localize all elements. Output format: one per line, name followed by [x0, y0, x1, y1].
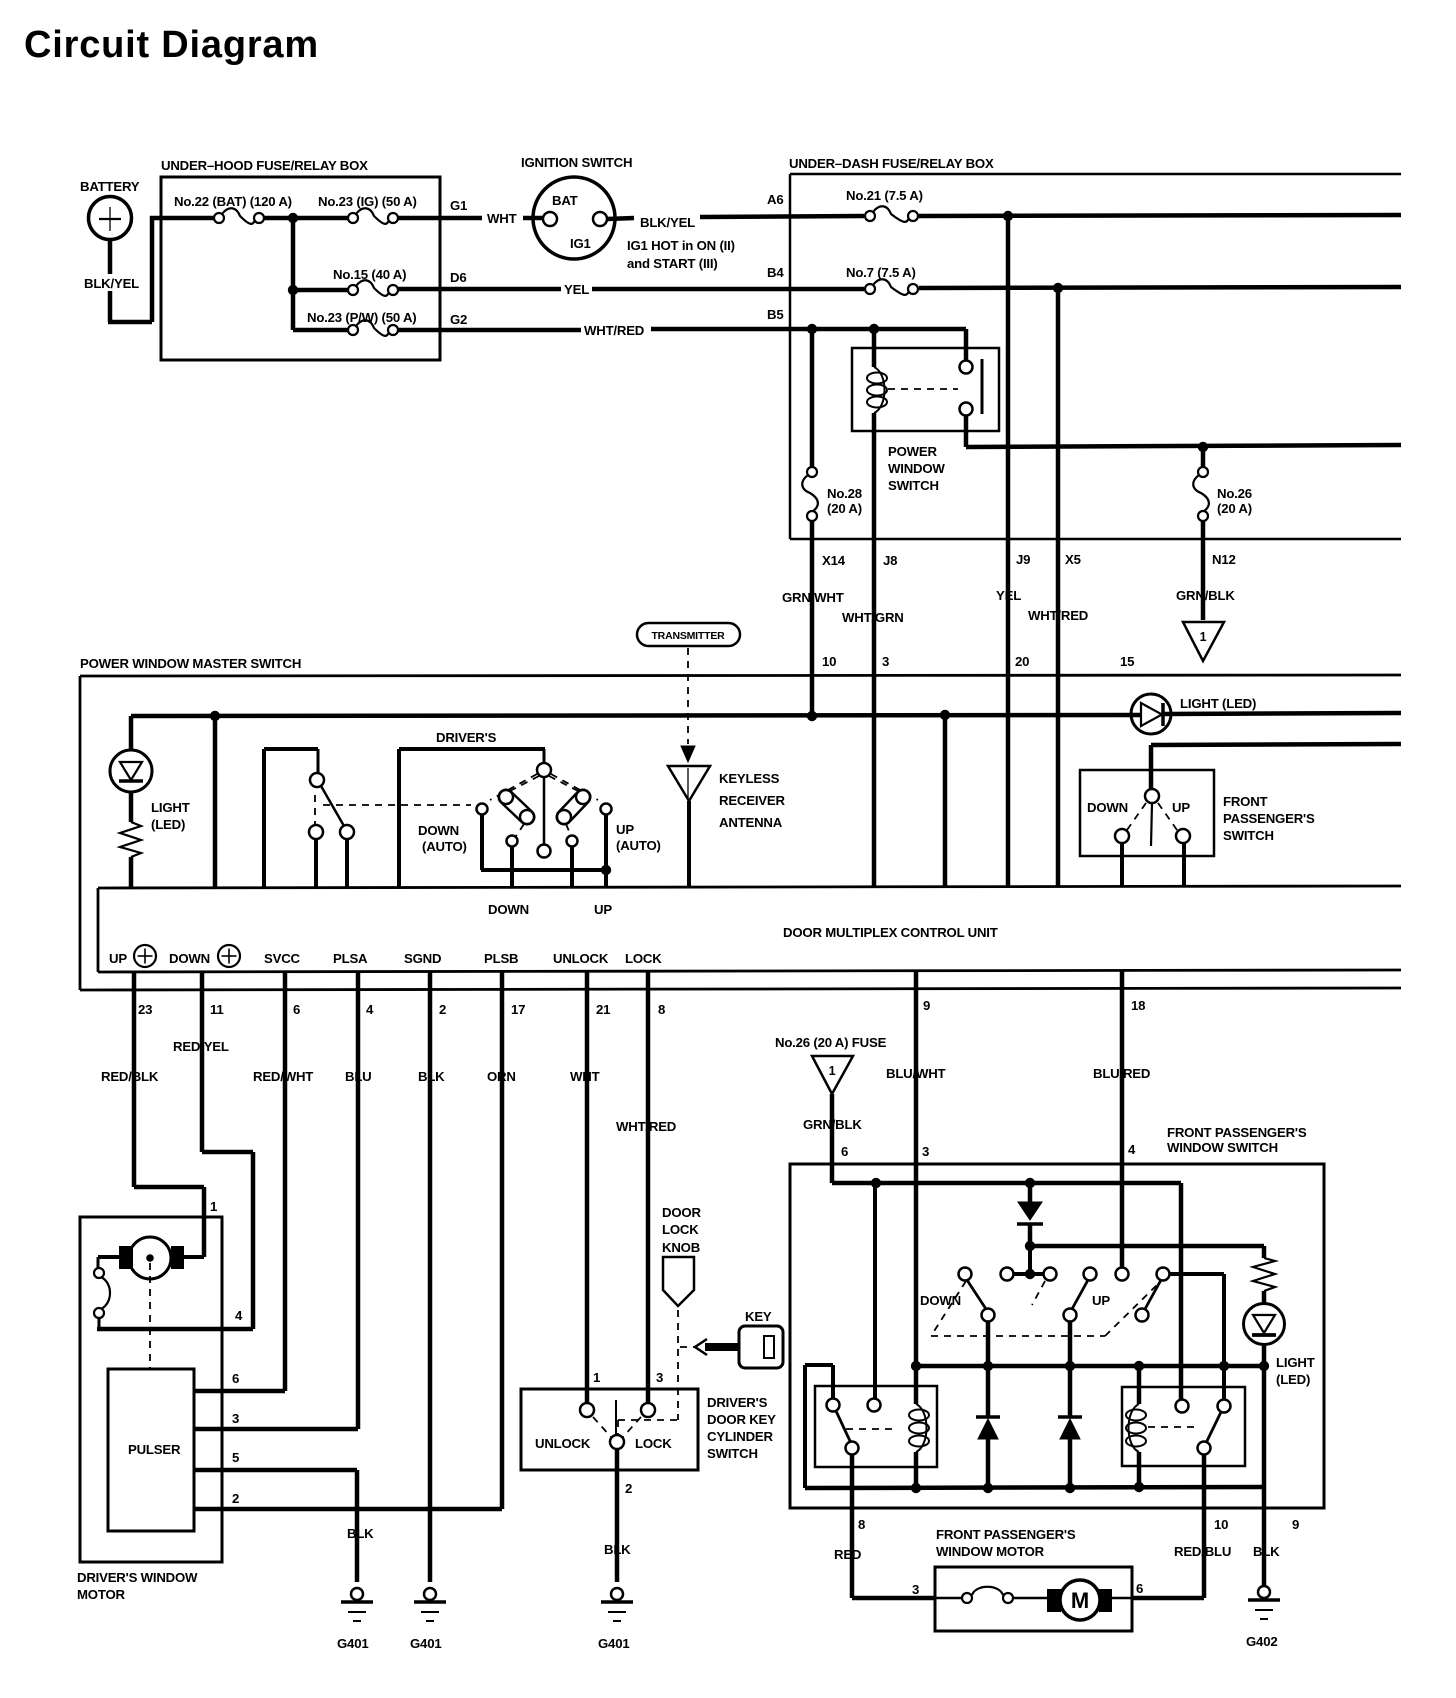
wire SW4 legs [1120, 843, 1124, 886]
svg-text:KEYLESS: KEYLESS [719, 771, 780, 786]
switch UP fp contacts [1084, 1268, 1097, 1281]
wire SW2 legs [314, 839, 318, 888]
svg-text:LIGHT (LED): LIGHT (LED) [1180, 696, 1256, 711]
node rail X14 in [807, 711, 817, 721]
svg-text:No.23 (P/W) (50 A): No.23 (P/W) (50 A) [307, 310, 416, 325]
svg-text:KEY: KEY [745, 1309, 772, 1324]
ground G401 c [611, 1588, 623, 1600]
svg-text:2: 2 [232, 1491, 239, 1506]
svg-text:3: 3 [912, 1582, 919, 1597]
svg-text:PASSENGER'S: PASSENGER'S [1223, 811, 1315, 826]
svg-text:LOCK: LOCK [635, 1436, 672, 1451]
svg-text:PULSER: PULSER [128, 1442, 181, 1457]
switch fp arms [967, 1280, 986, 1309]
svg-text:RECEIVER: RECEIVER [719, 793, 785, 808]
node junction bat [288, 213, 298, 223]
relay K1 coil [872, 329, 877, 367]
node diode out [1025, 1241, 1035, 1251]
pin 9 wire BLU/WHT [914, 970, 919, 1366]
link motor-pulser dashed [149, 1263, 151, 1369]
svg-text:G401: G401 [410, 1636, 441, 1651]
fuse No.26 (20 A) [1201, 447, 1206, 467]
fuse No.28 (20 A) [810, 329, 815, 467]
svg-text:G1: G1 [450, 198, 467, 213]
link SW3 dashed rays [490, 774, 537, 800]
svg-text:1: 1 [829, 1064, 836, 1078]
node B4 junction [1053, 283, 1063, 293]
svg-text:4: 4 [235, 1308, 243, 1323]
diode D2 [1058, 1415, 1082, 1419]
relay K3 arm [1207, 1412, 1221, 1441]
wire BLK/YEL to under-dash A6 [700, 216, 864, 217]
wire X5 vertical [1056, 288, 1061, 887]
svg-text:BLU/WHT: BLU/WHT [886, 1066, 946, 1081]
switch DOWN fp contacts [959, 1268, 972, 1281]
svg-text:RED/BLU: RED/BLU [1174, 1544, 1231, 1559]
switch SW4 front passenger [1080, 770, 1214, 856]
svg-text:DOWN: DOWN [169, 951, 210, 966]
svg-text:LIGHT: LIGHT [1276, 1355, 1315, 1370]
wire junction down [291, 218, 296, 330]
svg-text:IG1: IG1 [570, 236, 591, 251]
ground G402 [1258, 1586, 1270, 1598]
wire G1 row [150, 216, 214, 221]
svg-text:N12: N12 [1212, 552, 1236, 567]
wire pin 10 RED/BLU [1202, 1455, 1207, 1598]
wire fp right drop [1179, 1183, 1184, 1399]
wire GRN/BLK pin 6 [830, 1094, 835, 1183]
svg-text:GRN/BLK: GRN/BLK [1176, 588, 1235, 603]
node B5 junction X14 [807, 324, 817, 334]
svg-text:SWITCH: SWITCH [1223, 828, 1274, 843]
wire motor to breaker [98, 1255, 121, 1259]
svg-text:FRONT: FRONT [1223, 794, 1268, 809]
svg-text:GRN/WHT: GRN/WHT [782, 590, 844, 605]
wire SW3 bus [481, 868, 608, 872]
svg-text:KNOB: KNOB [662, 1240, 700, 1255]
wire pulser pin 3 [194, 1427, 358, 1432]
wire pin 8 RED [850, 1455, 855, 1598]
wire main thick rail [131, 715, 1141, 716]
svg-text:BLU/RED: BLU/RED [1093, 1066, 1150, 1081]
wire relay output [964, 415, 969, 447]
svg-text:UP: UP [616, 822, 634, 837]
switch SW2 arm [321, 786, 344, 826]
svg-text:SVCC: SVCC [264, 951, 301, 966]
link K2 dashed [846, 1428, 898, 1430]
driver's window motor box [80, 1217, 222, 1562]
svg-text:POWER: POWER [888, 444, 937, 459]
diode D3 [1028, 1183, 1033, 1203]
svg-text:YEL: YEL [564, 282, 589, 297]
node fp rail b [1025, 1178, 1035, 1188]
svg-text:18: 18 [1131, 998, 1145, 1013]
svg-text:A6: A6 [767, 192, 783, 207]
svg-text:SGND: SGND [404, 951, 441, 966]
svg-text:SWITCH: SWITCH [707, 1446, 758, 1461]
wire YEL to under-dash B4 [592, 287, 864, 292]
svg-text:DRIVER'S: DRIVER'S [707, 1395, 768, 1410]
wire rail to control unit 1 [213, 716, 218, 888]
svg-text:WHT: WHT [487, 211, 517, 226]
svg-text:UP: UP [1092, 1293, 1110, 1308]
svg-text:IG1 HOT in ON (II): IG1 HOT in ON (II) [627, 238, 735, 253]
link K3 dashed [1148, 1426, 1197, 1428]
svg-text:WHT: WHT [570, 1069, 600, 1084]
switch SW5 arm [615, 1400, 617, 1434]
svg-text:3: 3 [656, 1370, 663, 1385]
svg-text:G402: G402 [1246, 1634, 1277, 1649]
svg-text:GRN/BLK: GRN/BLK [803, 1117, 862, 1132]
svg-text:3: 3 [232, 1411, 239, 1426]
wire B5 to relay contact [964, 329, 969, 361]
wire top rail fp [832, 1181, 1181, 1186]
svg-text:M: M [1071, 1588, 1089, 1613]
relay K2 left [815, 1386, 937, 1467]
relay K1 link dashed [888, 388, 958, 390]
switch fp bottom contacts [982, 1309, 995, 1322]
svg-text:2: 2 [439, 1002, 446, 1017]
svg-text:UNDER–DASH FUSE/RELAY BOX: UNDER–DASH FUSE/RELAY BOX [789, 156, 994, 171]
ground G401 b [424, 1588, 436, 1600]
svg-text:J9: J9 [1016, 552, 1030, 567]
pin 18 wire BLU/RED [1120, 970, 1125, 1274]
wire SW3 G leg [510, 846, 514, 888]
svg-text:J8: J8 [883, 553, 897, 568]
svg-text:ANTENNA: ANTENNA [719, 815, 783, 830]
switch SW3 pivot [537, 763, 551, 777]
svg-text:BLK: BLK [347, 1526, 374, 1541]
arrow head [681, 746, 695, 762]
switch SW5 key cylinder box [521, 1389, 698, 1470]
svg-text:WHT/RED: WHT/RED [616, 1119, 676, 1134]
pin 11 wire RED/YEL [200, 972, 205, 1152]
svg-text:DOWN: DOWN [920, 1293, 961, 1308]
svg-text:WINDOW MOTOR: WINDOW MOTOR [936, 1544, 1045, 1559]
svg-text:UP: UP [1172, 800, 1190, 815]
svg-text:No.28: No.28 [827, 486, 862, 501]
relay K3 contacts [1176, 1400, 1189, 1413]
wire SW3 H leg [570, 846, 574, 888]
svg-text:1: 1 [210, 1199, 217, 1214]
pin 8 wire WHT/RED [646, 972, 651, 1404]
diode D1 [976, 1415, 1000, 1419]
svg-text:No.26: No.26 [1217, 486, 1252, 501]
svg-text:PLSB: PLSB [484, 951, 518, 966]
svg-text:DRIVER'S WINDOW: DRIVER'S WINDOW [77, 1570, 198, 1585]
svg-text:WINDOW SWITCH: WINDOW SWITCH [1167, 1140, 1278, 1155]
svg-text:MOTOR: MOTOR [77, 1587, 126, 1602]
svg-text:YEL: YEL [996, 588, 1021, 603]
svg-text:3: 3 [882, 654, 889, 669]
svg-text:WHT/RED: WHT/RED [584, 323, 644, 338]
svg-text:23: 23 [138, 1002, 152, 1017]
switch SW3 arm [543, 777, 546, 845]
pin 2 wire BLK [428, 972, 433, 1582]
wire G2 row [293, 328, 348, 333]
switch SW2 window lock [264, 747, 318, 751]
svg-text:(LED): (LED) [151, 817, 185, 832]
svg-text:4: 4 [1128, 1142, 1136, 1157]
svg-text:G401: G401 [337, 1636, 368, 1651]
antenna A1 keyless receiver [668, 766, 710, 801]
svg-text:1: 1 [1200, 630, 1207, 644]
pin 6 wire RED/WHT [283, 972, 288, 1391]
svg-text:15: 15 [1120, 654, 1134, 669]
svg-text:Circuit Diagram: Circuit Diagram [24, 24, 319, 66]
svg-text:10: 10 [822, 654, 836, 669]
wire fp mid rail [916, 1364, 1264, 1369]
svg-text:PLSA: PLSA [333, 951, 368, 966]
svg-text:WINDOW: WINDOW [888, 461, 945, 476]
wire antenna leg [687, 801, 691, 888]
link SW4 dashed [1127, 803, 1146, 830]
svg-text:10: 10 [1214, 1517, 1228, 1532]
svg-text:No.21 (7.5 A): No.21 (7.5 A) [846, 188, 923, 203]
svg-text:11: 11 [210, 1002, 224, 1017]
svg-text:6: 6 [1136, 1581, 1143, 1596]
svg-text:DOWN: DOWN [1087, 800, 1128, 815]
node rail-led [210, 711, 220, 721]
wire fp bottom bus [805, 1487, 1264, 1488]
wire pulser pin 6 [194, 1389, 285, 1394]
wire J9 vertical [1006, 216, 1011, 888]
svg-text:5: 5 [232, 1450, 239, 1465]
svg-text:FRONT PASSENGER'S: FRONT PASSENGER'S [936, 1527, 1076, 1542]
motor M1 [184, 1255, 204, 1259]
switch SW4 contacts [1115, 829, 1129, 843]
switch SW4 pivot [1145, 789, 1159, 803]
node SW3 bus junction [601, 865, 611, 875]
link key dashed [680, 1346, 697, 1348]
svg-text:4: 4 [366, 1002, 374, 1017]
svg-text:B5: B5 [767, 307, 783, 322]
door multiplex control unit box [98, 886, 1401, 888]
fuse symbol triangle 1 [1183, 622, 1224, 661]
svg-text:IGNITION SWITCH: IGNITION SWITCH [521, 155, 632, 170]
svg-text:DOWN: DOWN [488, 902, 529, 917]
svg-text:21: 21 [596, 1002, 610, 1017]
node rail mid [940, 710, 950, 720]
svg-text:8: 8 [658, 1002, 665, 1017]
wire SW3 E leg [480, 814, 484, 870]
switch SW5 pivot [610, 1435, 624, 1449]
svg-text:UNLOCK: UNLOCK [535, 1436, 591, 1451]
terminal IG1 [593, 212, 607, 226]
svg-text:UP: UP [109, 951, 127, 966]
svg-text:RED/BLK: RED/BLK [101, 1069, 159, 1084]
front passenger's window switch box [790, 1164, 1324, 1508]
svg-text:6: 6 [841, 1144, 848, 1159]
svg-text:BLK: BLK [1253, 1544, 1280, 1559]
svg-text:BLK: BLK [604, 1542, 631, 1557]
svg-text:UNLOCK: UNLOCK [553, 951, 609, 966]
svg-text:BLK/YEL: BLK/YEL [640, 215, 695, 230]
svg-text:9: 9 [923, 998, 930, 1013]
wire K2 TR feed [873, 1183, 877, 1398]
svg-text:DOOR KEY: DOOR KEY [707, 1412, 776, 1427]
wire K2 TL path [831, 1365, 835, 1398]
terminal BAT [543, 212, 557, 226]
svg-text:X14: X14 [822, 553, 846, 568]
switch SW3 capsule left [506, 797, 527, 817]
svg-text:G401: G401 [598, 1636, 629, 1651]
wire WHT/RED to under-dash B5 [651, 327, 966, 332]
switch SW3 contacts [477, 804, 488, 815]
svg-text:RED: RED [834, 1547, 861, 1562]
wire A6 row to right edge [919, 215, 1401, 216]
wire D6 row [293, 288, 348, 293]
link fp dashed bar [931, 1281, 966, 1336]
svg-text:2: 2 [625, 1481, 632, 1496]
svg-text:BLK/YEL: BLK/YEL [84, 276, 139, 291]
svg-text:(20 A): (20 A) [827, 501, 862, 516]
svg-text:BLK: BLK [418, 1069, 445, 1084]
svg-text:LOCK: LOCK [625, 951, 662, 966]
svg-text:ORN: ORN [487, 1069, 516, 1084]
svg-text:LOCK: LOCK [662, 1222, 699, 1237]
node A6 junction [1003, 211, 1013, 221]
switch SW4 arm [1151, 803, 1152, 846]
svg-text:WHT/RED: WHT/RED [1028, 608, 1088, 623]
wire contact6 to relay [1170, 1272, 1224, 1276]
ground G401 a [351, 1588, 363, 1600]
svg-text:UNDER–HOOD FUSE/RELAY BOX: UNDER–HOOD FUSE/RELAY BOX [161, 158, 368, 173]
svg-text:No.22 (BAT) (120 A): No.22 (BAT) (120 A) [174, 194, 292, 209]
relay K1 power window switch [852, 348, 999, 431]
pin 23 wire RED/BLK [132, 972, 137, 1187]
svg-text:B4: B4 [767, 265, 784, 280]
svg-text:(LED): (LED) [1276, 1372, 1310, 1387]
transmitter [637, 623, 740, 646]
svg-text:RED/WHT: RED/WHT [253, 1069, 313, 1084]
svg-text:20: 20 [1015, 654, 1029, 669]
breaker CB1 [94, 1268, 104, 1278]
svg-text:No.23 (IG) (50 A): No.23 (IG) (50 A) [318, 194, 417, 209]
svg-text:D6: D6 [450, 270, 466, 285]
wire B4 row to right edge [919, 287, 1401, 288]
node junction d6 [288, 285, 298, 295]
wire diode to contacts [1028, 1246, 1032, 1274]
wire pulser pin 2 [194, 1507, 502, 1512]
motor M2 [1047, 1589, 1061, 1612]
link knob dashed [677, 1310, 679, 1420]
svg-text:WHT/GRN: WHT/GRN [842, 610, 904, 625]
wire battery to under-hood box [108, 239, 113, 274]
link capsule dashes [516, 824, 524, 836]
svg-text:17: 17 [511, 1002, 525, 1017]
svg-text:No.15 (40 A): No.15 (40 A) [333, 267, 406, 282]
svg-text:SWITCH: SWITCH [888, 478, 939, 493]
svg-text:and START (III): and START (III) [627, 256, 718, 271]
wire motor pin 4 row [97, 1327, 253, 1332]
svg-text:CYLINDER: CYLINDER [707, 1429, 773, 1444]
svg-text:X5: X5 [1065, 552, 1081, 567]
LED D5 light right [1131, 694, 1171, 734]
node relay out junction [1198, 442, 1208, 452]
svg-text:No.26 (20 A) FUSE: No.26 (20 A) FUSE [775, 1035, 887, 1050]
node B5 junction J8 [869, 324, 879, 334]
wire second rail fp [1030, 1244, 1264, 1249]
pin 17 wire ORN [500, 972, 505, 1509]
relay K3 right [1122, 1387, 1245, 1466]
svg-text:FRONT PASSENGER'S: FRONT PASSENGER'S [1167, 1125, 1307, 1140]
link SW5 dashed [593, 1417, 611, 1437]
svg-text:9: 9 [1292, 1517, 1299, 1532]
wire pulser pin 5 [194, 1468, 357, 1473]
relay K3 coil [1137, 1366, 1142, 1404]
wire fp up leg [1068, 1322, 1073, 1417]
svg-text:DOOR MULTIPLEX CONTROL UNIT: DOOR MULTIPLEX CONTROL UNIT [783, 925, 998, 940]
svg-text:G2: G2 [450, 312, 467, 327]
switch SW3 capsule right [564, 797, 583, 817]
svg-text:DOOR: DOOR [662, 1205, 701, 1220]
wire SW3 F leg [604, 814, 608, 888]
wire transmitter dashed [687, 648, 689, 744]
wire fp down leg [986, 1322, 991, 1417]
svg-text:RED/YEL: RED/YEL [173, 1039, 229, 1054]
svg-text:LIGHT: LIGHT [151, 800, 190, 815]
LED D2 light left [129, 716, 134, 750]
pin 2 wire [615, 1449, 620, 1582]
svg-text:(AUTO): (AUTO) [616, 838, 661, 853]
svg-text:BAT: BAT [552, 193, 578, 208]
resistor R1 [129, 792, 134, 822]
LED D4 fp light [1262, 1291, 1267, 1304]
svg-text:8: 8 [858, 1517, 865, 1532]
relay K2 arm [836, 1411, 850, 1441]
svg-text:No.7 (7.5 A): No.7 (7.5 A) [846, 265, 916, 280]
relay K1 contact [960, 361, 973, 374]
svg-text:3: 3 [922, 1144, 929, 1159]
wire rail to control unit 2 [943, 715, 948, 888]
relay K2 contacts [827, 1399, 840, 1412]
svg-text:6: 6 [293, 1002, 300, 1017]
svg-text:(20 A): (20 A) [1217, 501, 1252, 516]
svg-text:POWER WINDOW MASTER SWITCH: POWER WINDOW MASTER SWITCH [80, 656, 301, 671]
svg-text:6: 6 [232, 1371, 239, 1386]
svg-text:UP: UP [594, 902, 612, 917]
relay K2 coil [914, 1366, 919, 1404]
svg-text:DOWN: DOWN [418, 823, 459, 838]
pin 4 wire BLU [356, 972, 361, 1429]
svg-text:(AUTO): (AUTO) [422, 839, 467, 854]
node fp rail a [871, 1178, 881, 1188]
wire second rail [1151, 744, 1401, 745]
wire pin11 to motor pin4 [202, 1150, 253, 1155]
link SW2 dashed [314, 795, 316, 824]
svg-text:BLU: BLU [345, 1069, 372, 1084]
svg-text:TRANSMITTER: TRANSMITTER [651, 630, 725, 642]
svg-text:1: 1 [593, 1370, 600, 1385]
wire pin23 to motor pin 1 [134, 1185, 204, 1190]
resistor R2 [1262, 1246, 1267, 1258]
pin 21 wire WHT [585, 972, 590, 1404]
svg-text:DRIVER'S: DRIVER'S [436, 730, 497, 745]
svg-text:BATTERY: BATTERY [80, 179, 140, 194]
pulser U1 [108, 1369, 194, 1531]
